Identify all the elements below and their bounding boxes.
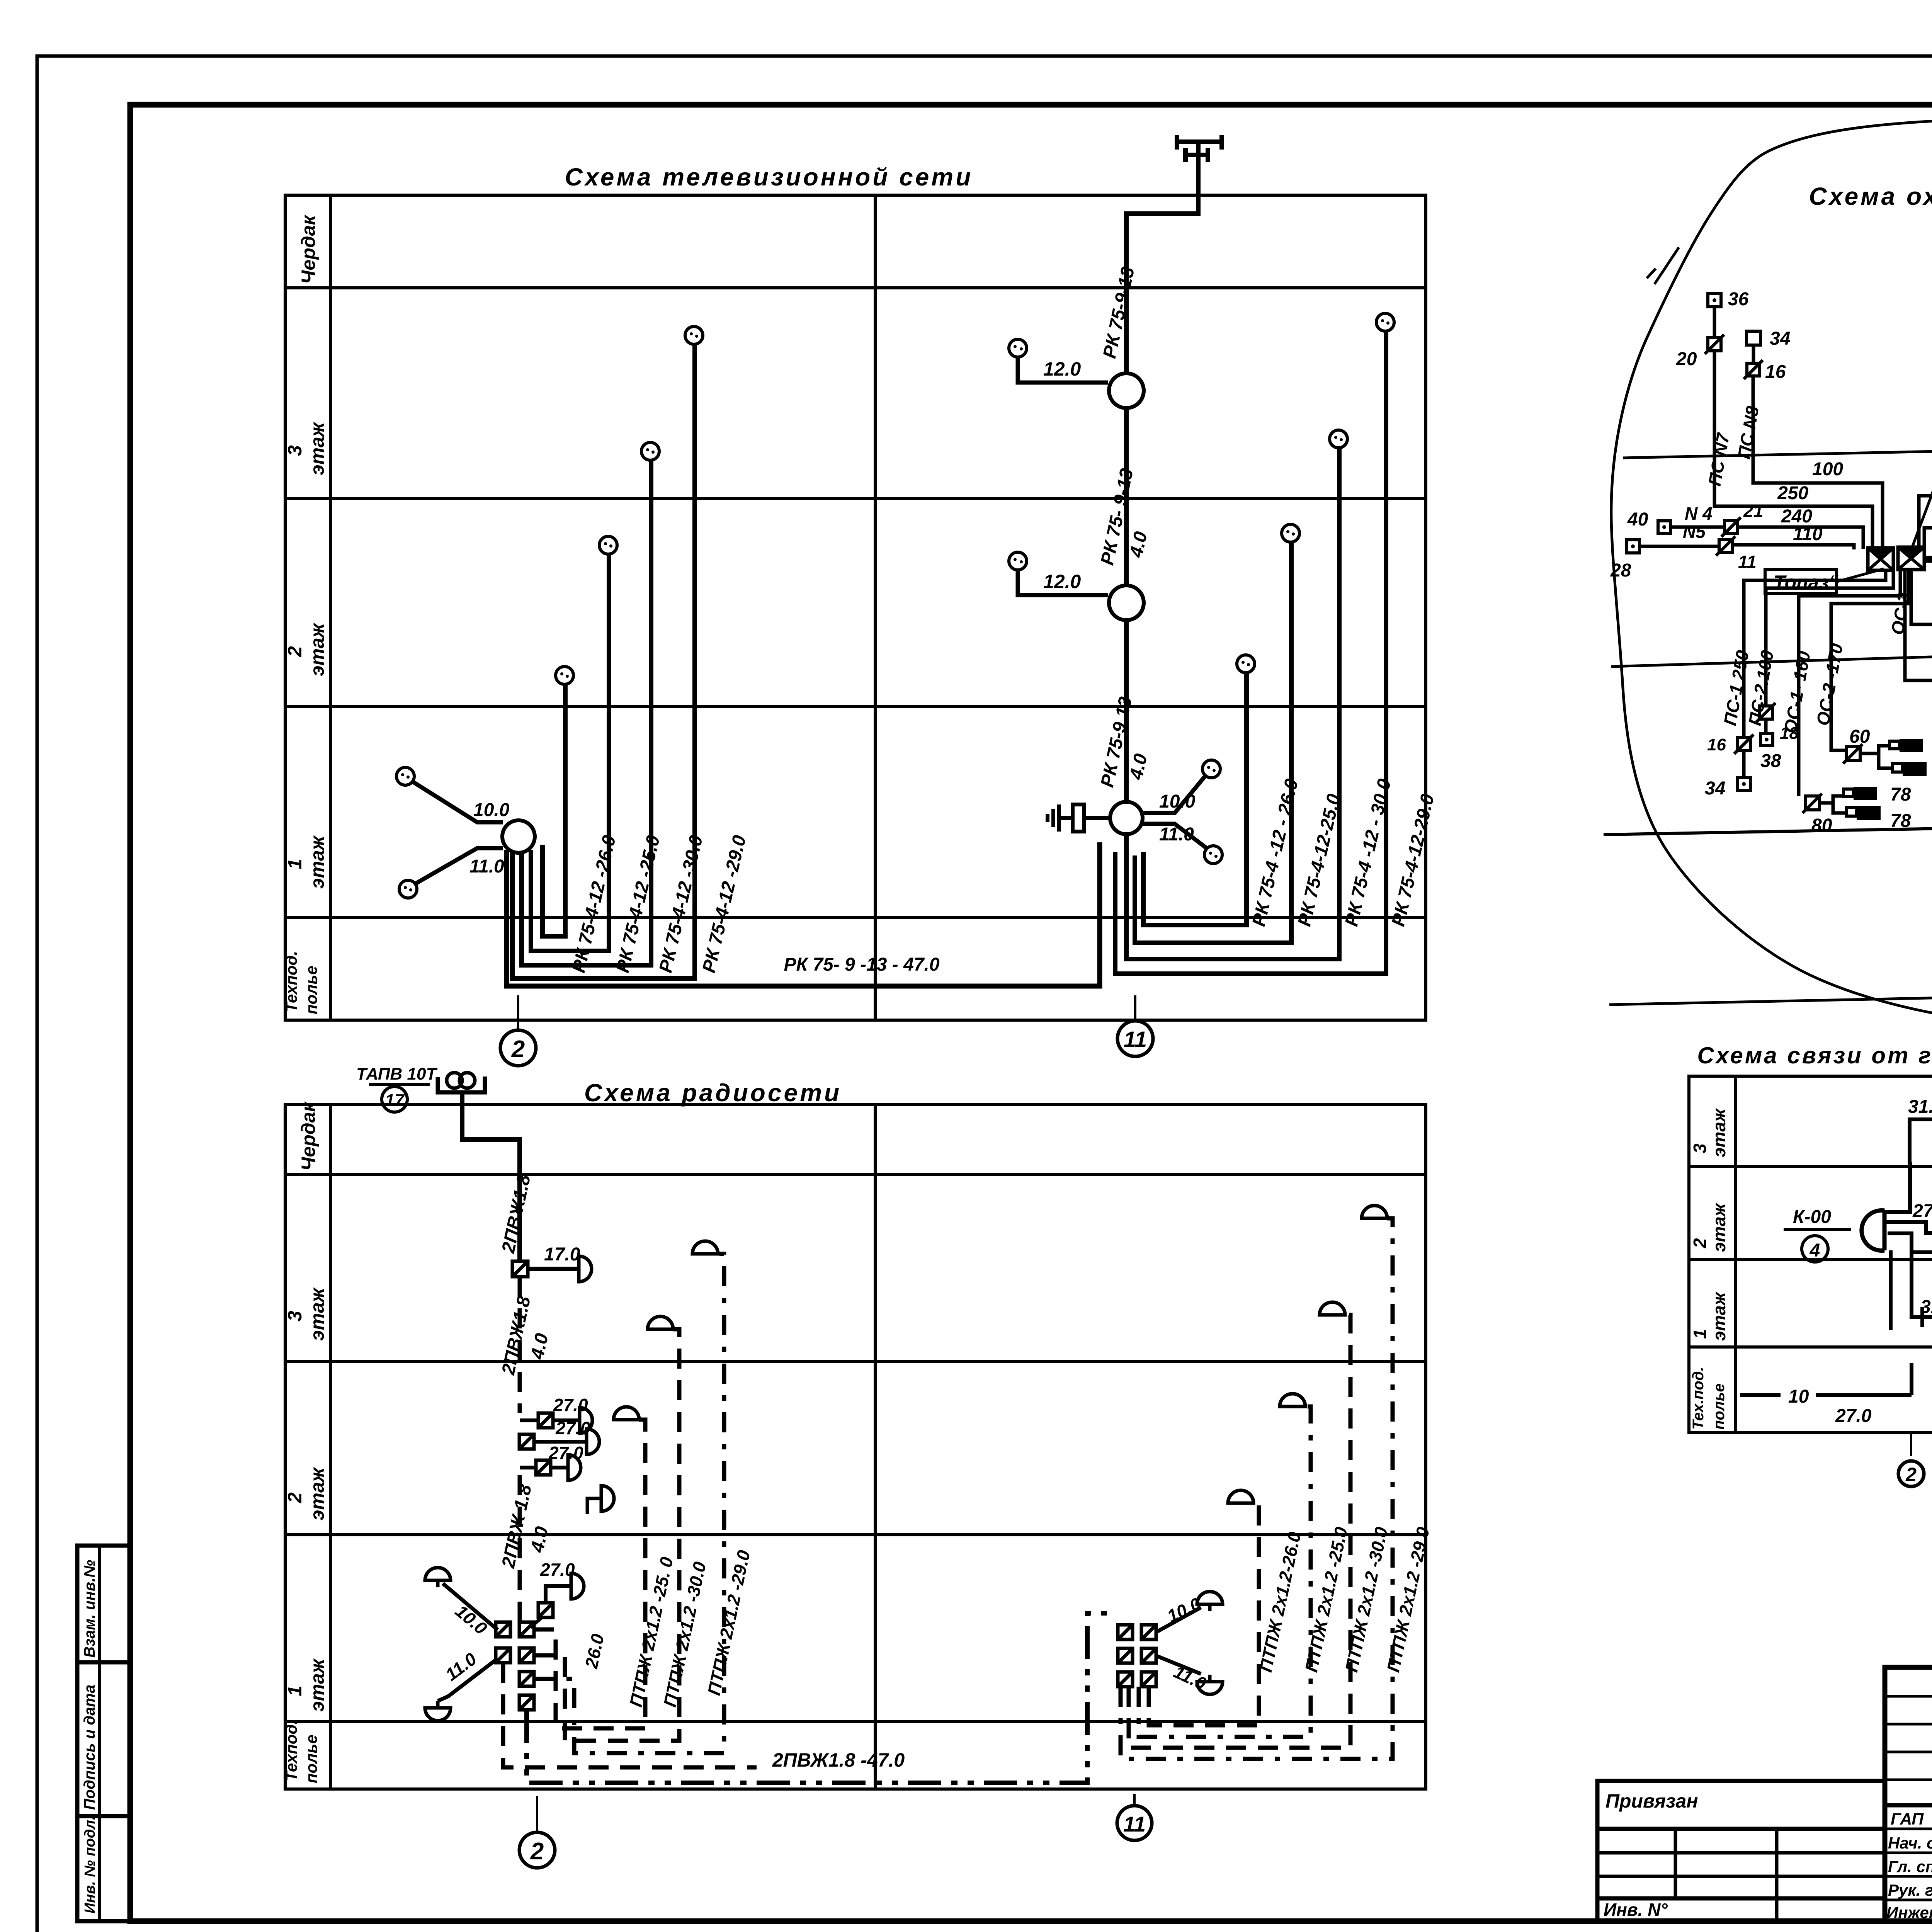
svg-text:27.0: 27.0 (1912, 1201, 1932, 1221)
svg-text:27.0: 27.0 (553, 1395, 588, 1415)
loudspeaker cable 25.0 (614, 1407, 639, 1420)
svg-text:Гл. спец.: Гл. спец. (1888, 1857, 1932, 1876)
detector 20 (1705, 335, 1724, 354)
svg-text:34: 34 (1770, 328, 1790, 349)
leader Топаз (1837, 569, 1884, 582)
label 100 (1812, 459, 1843, 480)
detector 16 (1744, 360, 1763, 379)
svg-text:1: 1 (1690, 1329, 1710, 1339)
leader Сигнал-43 (1912, 430, 1932, 548)
wire заведующей 36.0 (1888, 1221, 1932, 1252)
cable РК75-4-12-25.0 right (1135, 542, 1291, 943)
svg-text:Инженер: Инженер (1886, 1903, 1932, 1922)
title Схема охранно-пожарной сигнализации (1809, 182, 1932, 210)
loudspeaker 2fl a (580, 1408, 592, 1433)
labels ПТПЖ left riser (626, 1548, 754, 1709)
splitter 2nd floor (1109, 585, 1144, 620)
svg-text:Инв. № подл.: Инв. № подл. (82, 1816, 98, 1913)
svg-text:Нач. отд.: Нач. отд. (1888, 1834, 1932, 1852)
label 21 (1743, 501, 1763, 521)
cable РК75-4-12-29.0 left (512, 344, 695, 978)
cable РК75-4-12-26.0 right (1143, 672, 1247, 925)
label 34 (1705, 778, 1725, 799)
cable РК75-4-12-30.0 right (1126, 447, 1339, 959)
label 2ПВЖ1.8-47.0 (772, 1749, 905, 1771)
svg-text:полье: полье (302, 966, 320, 1014)
cable mark 4 (1784, 1230, 1851, 1262)
svg-text:3: 3 (284, 1311, 306, 1321)
wire ПС N6 (1924, 528, 1932, 552)
label ПС N8 (1734, 405, 1763, 461)
loudspeaker cable 30.0 right (1320, 1302, 1345, 1315)
loudspeaker cable 30.0 (648, 1316, 673, 1329)
cable ПТПЖ2х1.2-29.0 right (1121, 1218, 1393, 1759)
label 10.0 (473, 800, 510, 820)
TV floor table (285, 195, 1426, 1020)
label 17.0 (544, 1244, 580, 1265)
label 10.0 (1164, 1594, 1204, 1626)
label 31. 0 (1920, 1297, 1932, 1317)
label ОС-3 (1887, 591, 1914, 636)
loudspeaker 1fl left lower (425, 1701, 451, 1721)
wire N4 (1670, 527, 1863, 549)
wire 16-34 (1742, 751, 1746, 777)
label ОС-2-170 (1813, 642, 1847, 727)
label 27.0 (548, 1443, 583, 1463)
wire to speaker 2fl a (520, 1418, 580, 1422)
left margin strip: Подпись и дата box (77, 1662, 130, 1816)
cable ПТПЖ2х1.2-30.0 right (1129, 1315, 1350, 1748)
wire 10.0 right riser (1142, 775, 1206, 813)
label 26.0 (581, 1632, 608, 1670)
wire 31.0 1fl (1912, 1306, 1932, 1327)
label 38 (1760, 751, 1781, 771)
wire 10.0 left riser (413, 782, 503, 822)
wire 17.0 to speaker (528, 1267, 579, 1271)
concentrator box 2 (1898, 547, 1924, 570)
wire 11.0 right riser (1142, 824, 1207, 849)
label 11.0 (1171, 1662, 1209, 1694)
svg-text:31. 0: 31. 0 (1920, 1297, 1932, 1317)
trunk РК75-9-13-47.0 (507, 842, 1100, 986)
concentrator Сигнал-43 box 1 (1868, 548, 1893, 570)
bell 74 upper (1889, 739, 1923, 752)
svg-text:этаж: этаж (1709, 1291, 1729, 1341)
svg-text:11: 11 (1123, 1812, 1146, 1836)
detector 18 dot (1760, 733, 1773, 746)
wire 10.0 slant (443, 1583, 498, 1630)
svg-text:2: 2 (530, 1838, 544, 1865)
outlet 3rd floor left (1009, 339, 1027, 357)
svg-text:этаж: этаж (306, 835, 328, 889)
riser mark 2 radio (519, 1832, 555, 1868)
svg-text:Схема радиосети: Схема радиосети (584, 1079, 842, 1107)
svg-text:Схема охранно-пожарной сигн: Схема охранно-пожарной сигнализации (1809, 182, 1932, 210)
wire to speaker 2fl c (520, 1466, 568, 1469)
wire ПС7 down (1714, 351, 1872, 549)
limiter grid 1fl right riser (1118, 1625, 1156, 1687)
floor line 1-tech (1604, 816, 1932, 835)
label 31.0 (1908, 1097, 1932, 1117)
label 36 (1728, 289, 1749, 310)
svg-text:60: 60 (1849, 726, 1870, 747)
wire N5 (1639, 545, 1854, 549)
label РК 75-9.13 / 4.0 lower (1097, 695, 1151, 789)
label 16 (1765, 362, 1786, 382)
svg-text:Инв. N°: Инв. N° (1604, 1900, 1668, 1920)
svg-text:ТАПВ 10Т: ТАПВ 10Т (356, 1065, 437, 1083)
svg-text:34: 34 (1705, 778, 1725, 799)
label 34 (1770, 328, 1790, 349)
radio floor table (285, 1104, 1426, 1789)
title Схема телевизионной сети (565, 163, 973, 191)
svg-text:11: 11 (1124, 1027, 1147, 1052)
outlet cable3 left (641, 442, 659, 460)
label 20 (1676, 349, 1697, 369)
label 2ПВЖ1.8 top (498, 1173, 535, 1255)
building outline blob (1611, 117, 1932, 1031)
label 18 (1780, 724, 1799, 743)
cable ПТПЖ2х1.2-25.0 right (1139, 1406, 1311, 1737)
cable ПТПЖ2х1.2-25.0 left (534, 1420, 645, 1728)
svg-text:3: 3 (1690, 1143, 1710, 1153)
label 27.0 (555, 1418, 590, 1438)
loudspeaker 1fl right upper (1197, 1592, 1223, 1611)
wire ПС-1 down (1744, 571, 1886, 738)
svg-text:Схема телевизионной сети: Схема телевизионной сети (565, 163, 973, 191)
wire ПС N9 (1919, 383, 1932, 549)
wire ОС-1 down (1799, 571, 1900, 796)
svg-text:4: 4 (1810, 1240, 1820, 1261)
svg-text:78: 78 (1890, 811, 1911, 831)
detector ПС-2 upper (1756, 703, 1776, 722)
wire to speaker 2fl b (534, 1440, 587, 1444)
wire riser between splitters 3-2 (1124, 408, 1129, 585)
wire riser between splitters 2-1 (1124, 620, 1129, 802)
trunk 2ПВЖ1.8-47.0 (527, 1613, 1117, 1783)
svg-text:этаж: этаж (306, 1467, 328, 1520)
svg-text:10.0: 10.0 (473, 800, 510, 820)
detector N4 box 40 (1658, 521, 1670, 533)
label 27.0 (540, 1560, 575, 1580)
loudspeaker cable 29.0 right (1362, 1206, 1387, 1218)
svg-text:11.0: 11.0 (469, 856, 504, 877)
riser mark 2 phone (1898, 1461, 1924, 1486)
svg-text:N 4: N 4 (1685, 503, 1713, 524)
svg-text:27.0: 27.0 (548, 1443, 583, 1463)
labels РК75-4-12 right riser (1248, 777, 1438, 929)
label N5 (1683, 522, 1706, 542)
wire 31.0 3fl (1910, 1119, 1932, 1164)
svg-text:Чердак: Чердак (298, 1101, 319, 1171)
svg-text:N5: N5 (1683, 522, 1706, 542)
outlet cable1 right (1237, 655, 1255, 673)
wire ПС-2 down (1766, 571, 1893, 706)
label 2ПВЖ 1.8 4.0 lower (498, 1483, 553, 1570)
riser mark 2 leader (517, 995, 519, 1029)
svg-text:2: 2 (284, 1492, 306, 1503)
svg-text:11.0: 11.0 (1159, 824, 1194, 845)
svg-text:Схема связи от городской: Схема связи от городской телефонной сети (1697, 1043, 1932, 1068)
floor line 3-2 (1623, 437, 1932, 458)
svg-text:80: 80 (1811, 815, 1832, 836)
label 12.0 (1043, 571, 1081, 592)
detector 21 N4 (1721, 517, 1741, 537)
svg-text:20: 20 (1676, 349, 1697, 369)
outlet cable4 left (685, 327, 703, 344)
riser mark 11 radio (1117, 1806, 1152, 1840)
ground symbol (1048, 804, 1110, 832)
svg-text:Техпод.: Техпод. (282, 951, 300, 1012)
cable РК75-4-12-26.0 left (543, 684, 565, 936)
wire trunk from 3fl into connector (1884, 1162, 1910, 1212)
labels ПТПЖ right riser (1255, 1525, 1433, 1674)
wire stub down B (1910, 1252, 1913, 1319)
svg-text:17: 17 (385, 1091, 405, 1110)
svg-text:2: 2 (1905, 1464, 1917, 1485)
label РК 75-9-13 riser top (1099, 265, 1139, 360)
loudspeaker 2fl c (568, 1455, 581, 1480)
svg-text:Рук. гр.: Рук. гр. (1888, 1881, 1932, 1899)
loudspeaker cable 29.0 (692, 1241, 718, 1254)
svg-text:100: 100 (1812, 459, 1843, 480)
wire ПС8 34-16 (1752, 345, 1755, 363)
label 10.0 (452, 1601, 491, 1639)
wire 12.0 to splitter 2fl (1018, 570, 1108, 595)
svg-text:этаж: этаж (306, 1287, 328, 1341)
wire ОС-1 to bells (1820, 796, 1847, 813)
svg-text:Тех.под.: Тех.под. (1690, 1367, 1707, 1430)
svg-text:16: 16 (1765, 362, 1786, 382)
splitter 3rd floor (1109, 373, 1144, 408)
svg-text:78: 78 (1890, 784, 1911, 805)
cable РК75-4-12-30.0 left (522, 460, 651, 965)
cable РК75-4-12-29.0 right (1115, 331, 1386, 974)
outlet left lower (399, 880, 417, 898)
wire 12.0 to splitter 3fl (1018, 357, 1108, 383)
label ОС-1-160 (1780, 650, 1815, 735)
label 40 (1627, 509, 1648, 530)
svg-text:36: 36 (1728, 289, 1749, 310)
label N 4 (1685, 503, 1713, 524)
phone floor table (1689, 1076, 1932, 1433)
detector ПС8 box 34 (1747, 331, 1760, 345)
label 27.0 (1912, 1201, 1932, 1221)
wire ПС N5 right (1924, 558, 1932, 662)
loudspeaker cable 26.0 right (1228, 1490, 1253, 1503)
wire tech underground 10 (1740, 1393, 1781, 1397)
svg-text:16: 16 (1707, 735, 1726, 754)
wire 11.0 slant (438, 1658, 498, 1701)
svg-text:21: 21 (1743, 501, 1763, 521)
svg-text:17.0: 17.0 (544, 1244, 580, 1265)
detector 11 N5 (1716, 536, 1735, 556)
loudspeaker 2fl b (587, 1429, 599, 1454)
wire 10.0 right (1156, 1607, 1201, 1632)
detector ПС7 end box 36 (1708, 294, 1721, 307)
loudspeaker cable 25.0 right (1280, 1394, 1305, 1406)
tick on blob top-left (1647, 247, 1679, 284)
svg-text:110: 110 (1793, 524, 1823, 544)
detector 16 1fl left (1734, 735, 1753, 754)
limiter 2fl a (538, 1413, 553, 1428)
limiter 3rd floor (512, 1261, 528, 1277)
label 11.0 (442, 1648, 480, 1685)
label 11 (1738, 552, 1757, 572)
wire ОС-2 to bells (1860, 746, 1893, 768)
left margin strip: Взам. инв.№ box (77, 1546, 130, 1662)
svg-text:Топаз“: Топаз“ (1774, 571, 1838, 593)
outlet cable3 right (1330, 430, 1347, 448)
svg-text:31.0: 31.0 (1908, 1097, 1932, 1117)
transformer T1 (438, 1073, 485, 1092)
label 27.0 (553, 1395, 588, 1415)
feeder mark 17 (369, 1084, 430, 1112)
wire 11.0 left riser (415, 848, 503, 884)
svg-text:Подпись и дата: Подпись и дата (81, 1685, 98, 1810)
outlet left upper (396, 767, 414, 785)
svg-text:12.0: 12.0 (1043, 571, 1081, 592)
svg-text:2: 2 (511, 1036, 525, 1063)
wire ОС-3 down (1905, 571, 1932, 680)
bell 74 lower (1893, 762, 1927, 776)
svg-text:12.0: 12.0 (1043, 358, 1081, 380)
svg-text:этаж: этаж (306, 422, 328, 475)
label 60 (1849, 726, 1870, 747)
svg-text:этаж: этаж (306, 622, 328, 676)
wire ПС7 36-20 (1713, 307, 1716, 338)
riser mark 11 (1117, 1021, 1153, 1056)
title Схема связи от городской телефонной сети (1697, 1043, 1932, 1068)
outlet cable2 right (1282, 524, 1299, 542)
outlet 1fl right upper (1202, 760, 1220, 778)
svg-text:10: 10 (1788, 1386, 1809, 1407)
svg-text:250: 250 (1777, 483, 1808, 503)
label ПС-1 250 (1720, 649, 1753, 727)
svg-text:Чердак: Чердак (298, 214, 319, 284)
bell 78 upper (1844, 787, 1877, 800)
label 12.0 (1043, 358, 1081, 380)
wire ПС8 down 100 (1753, 376, 1883, 549)
left riser splitter 1st floor (502, 820, 535, 853)
svg-text:К-00: К-00 (1793, 1207, 1831, 1227)
wire на ПЦН (1924, 561, 1932, 586)
svg-text:ГАП: ГАП (1891, 1810, 1924, 1828)
detector 34 end left (1737, 777, 1750, 791)
wire завхоз (1884, 1222, 1932, 1233)
title Схема радиосети (584, 1079, 842, 1107)
bell 78 lower (1847, 806, 1881, 820)
svg-text:этаж: этаж (306, 1658, 328, 1712)
outlet 2nd floor left (1009, 552, 1027, 570)
wire riser dashed 2-1 (518, 1475, 522, 1629)
svg-text:Привязан: Привязан (1605, 1790, 1698, 1812)
svg-text:РК 75- 9 -13 - 47.0: РК 75- 9 -13 - 47.0 (784, 954, 939, 975)
riser mark 2 (500, 1030, 536, 1066)
wire 11.0 right (1156, 1656, 1201, 1674)
label 11.0 (469, 856, 504, 877)
label Инв. № (1604, 1900, 1668, 1920)
floor line 2-1 (1611, 636, 1932, 667)
label 250 (1777, 483, 1808, 503)
svg-text:2: 2 (1690, 1238, 1710, 1248)
svg-text:Взам. инв.№: Взам. инв.№ (81, 1560, 98, 1658)
svg-text:этаж: этаж (1709, 1202, 1729, 1252)
svg-text:28: 28 (1610, 560, 1631, 581)
svg-text:27.0: 27.0 (555, 1418, 590, 1438)
label 28 (1610, 560, 1631, 581)
limiter 27.0 (530, 1603, 553, 1628)
svg-text:40: 40 (1627, 509, 1648, 530)
cable ПТПЖ2х1.2-30.0 left (535, 1329, 679, 1741)
label 16 (1707, 735, 1726, 754)
outlet 1fl right lower (1204, 846, 1222, 864)
wire ПС-2 mid (1764, 719, 1768, 733)
label Привязан (1605, 1790, 1698, 1812)
svg-text:Техпод.: Техпод. (282, 1720, 300, 1781)
cable РК75-4-12-25.0 left (531, 554, 609, 951)
wire 27.0 up (546, 1586, 571, 1603)
main title block frame (1885, 1667, 1932, 1921)
wire ОС-2 down (1831, 571, 1909, 750)
svg-text:1: 1 (284, 1685, 306, 1696)
loudspeaker 1fl left upper (425, 1568, 451, 1587)
outlet cable2 left (599, 536, 617, 554)
label РК 75-9-13 / 4.0 mid (1097, 467, 1151, 567)
svg-text:10.0: 10.0 (1159, 791, 1196, 812)
label 80 (1811, 815, 1832, 836)
svg-text:полье: полье (1711, 1383, 1728, 1430)
Привязан box (1597, 1781, 1885, 1921)
wire tech underground 27.0 (1816, 1363, 1912, 1395)
svg-text:1: 1 (284, 859, 306, 869)
cable ПТПЖ2х1.2-29.0 left (535, 1254, 724, 1753)
connector К-00 (1862, 1210, 1884, 1250)
limiter 2fl b (519, 1434, 534, 1449)
wire bundle exit 1fl left (503, 1663, 757, 1767)
label ПС N7 (1704, 431, 1734, 488)
outlet cable4 right (1376, 313, 1394, 331)
label ПС-2.100 (1745, 649, 1777, 727)
labels 78 78 (1890, 784, 1911, 831)
wire stub down A (1889, 1250, 1893, 1330)
loudspeaker 2fl d (587, 1486, 614, 1514)
label ТАПВ 10Т (356, 1065, 437, 1083)
riser mark 2 leader radio (536, 1796, 538, 1832)
riser mark 11 leader radio (1133, 1794, 1136, 1806)
label РК 75-9-13-47.0 (784, 954, 939, 975)
riser mark 2 leader phone (1910, 1433, 1912, 1456)
svg-text:27.0: 27.0 (540, 1560, 575, 1580)
detector ОС-2 box (1843, 744, 1862, 764)
svg-text:2: 2 (284, 646, 306, 657)
svg-text:3: 3 (284, 445, 306, 456)
label 240 (1781, 506, 1812, 527)
svg-text:27.0: 27.0 (1835, 1406, 1872, 1426)
svg-text:этаж: этаж (1709, 1108, 1729, 1157)
label 10 (1788, 1386, 1809, 1407)
wire riser dashed 3-2 (518, 1277, 522, 1413)
wire antenna feeder (1126, 142, 1198, 373)
label К-00 (1793, 1207, 1831, 1227)
label 11.0 (1159, 824, 1194, 845)
wire feeder to riser (462, 1092, 520, 1261)
outlet cable1 left (556, 667, 573, 684)
svg-text:11: 11 (1738, 552, 1757, 572)
loudspeaker 27.0 (571, 1573, 584, 1599)
svg-text:2ПВЖ1.8 -47.0: 2ПВЖ1.8 -47.0 (772, 1749, 905, 1771)
wire 220в (1911, 571, 1932, 624)
